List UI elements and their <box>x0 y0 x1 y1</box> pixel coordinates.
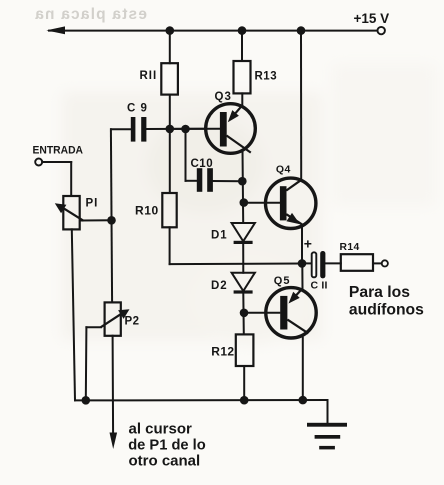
svg-text:P2: P2 <box>125 316 140 328</box>
svg-text:RII: RII <box>140 70 158 82</box>
svg-text:C II: C II <box>311 279 328 291</box>
svg-text:C10: C10 <box>191 158 214 170</box>
svg-text:R10: R10 <box>135 204 159 218</box>
svg-text:esta placa na: esta placa na <box>34 6 147 23</box>
svg-text:+: + <box>304 236 312 252</box>
svg-text:PI: PI <box>86 197 99 209</box>
svg-text:D2: D2 <box>211 280 228 292</box>
svg-text:ENTRADA: ENTRADA <box>33 145 84 157</box>
svg-text:Q4: Q4 <box>276 163 291 175</box>
svg-text:R14: R14 <box>340 242 360 253</box>
svg-text:audífonos: audífonos <box>349 302 424 319</box>
svg-text:+15 V: +15 V <box>354 11 390 26</box>
svg-text:otro canal: otro canal <box>129 453 201 470</box>
svg-text:al cursor: al cursor <box>129 421 193 438</box>
svg-text:Para los: Para los <box>349 284 410 301</box>
svg-text:R13: R13 <box>255 71 278 83</box>
svg-text:de P1 de lo: de P1 de lo <box>128 438 206 454</box>
svg-text:Q3: Q3 <box>215 91 232 103</box>
svg-text:D1: D1 <box>211 229 228 241</box>
svg-text:C 9: C 9 <box>127 102 148 114</box>
svg-text:R12: R12 <box>211 344 234 358</box>
svg-text:Q5: Q5 <box>274 275 291 287</box>
